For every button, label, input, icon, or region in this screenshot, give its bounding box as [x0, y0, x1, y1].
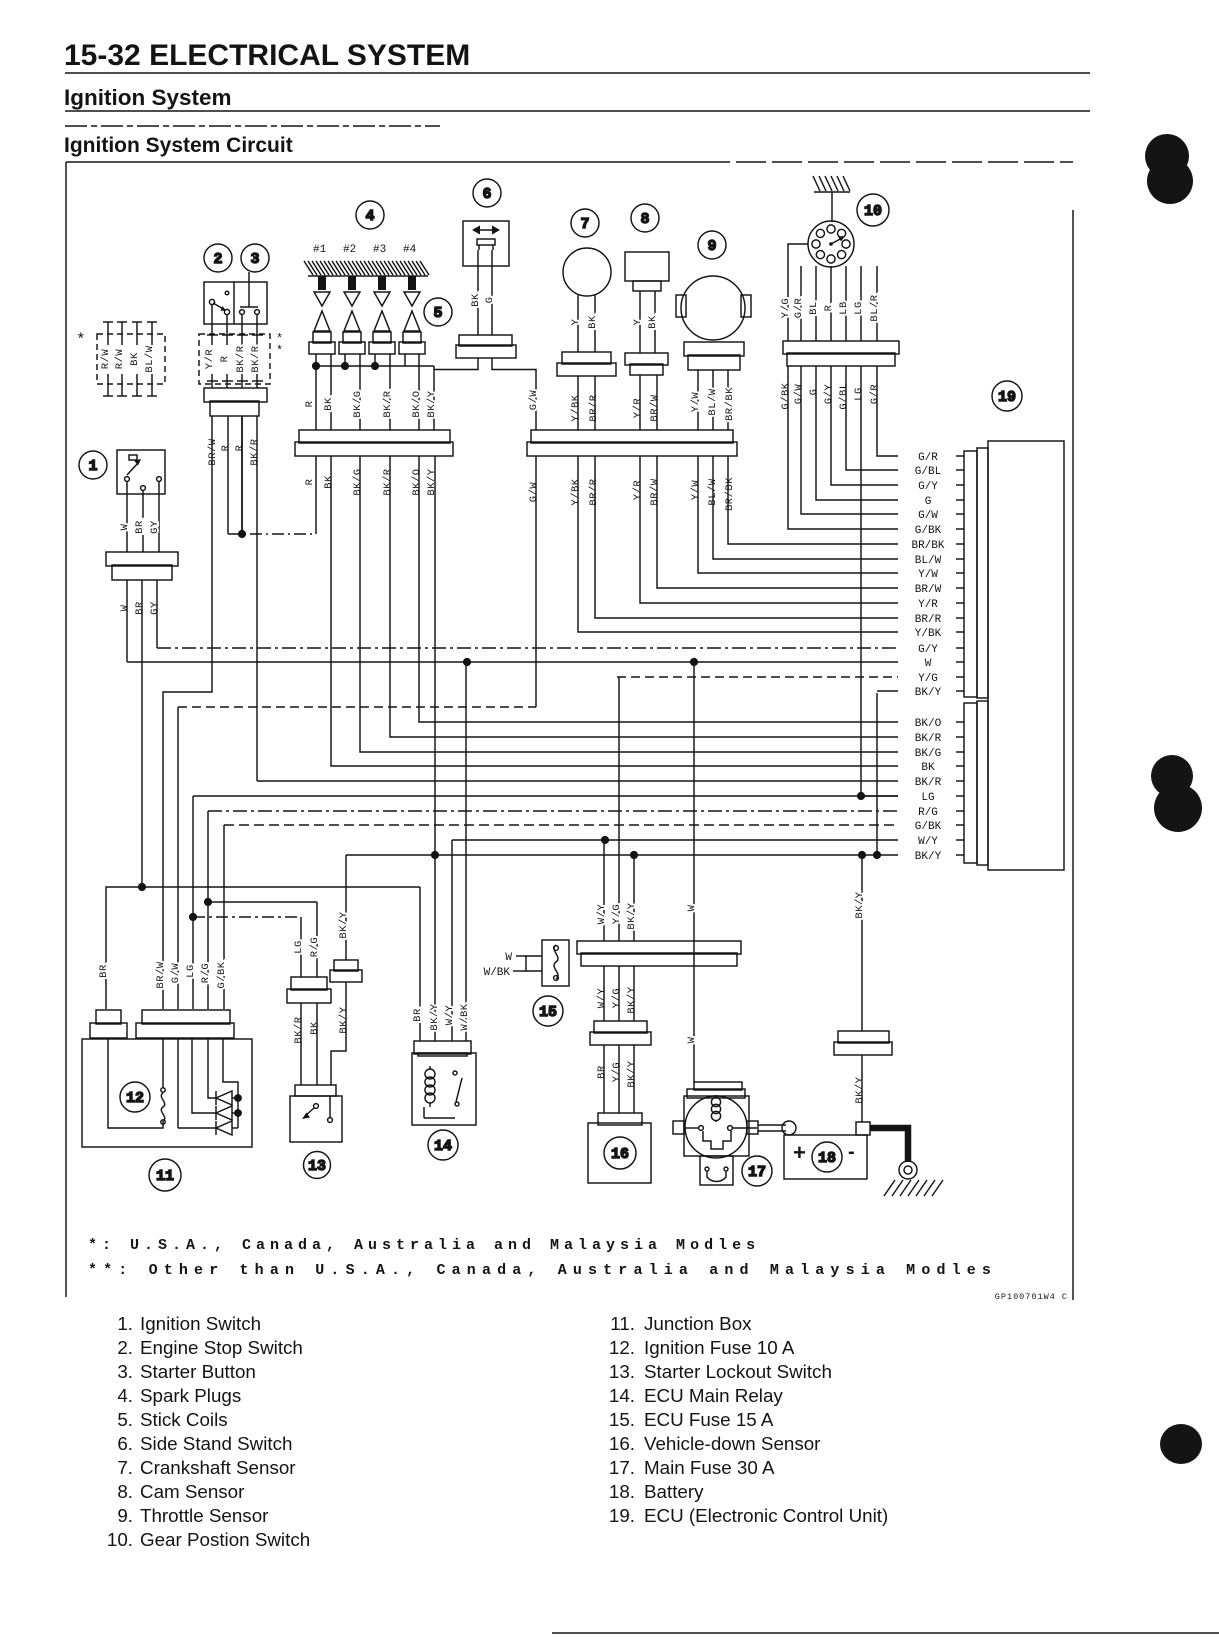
- svg-text:BR: BR: [134, 601, 146, 615]
- svg-text:R: R: [220, 444, 232, 451]
- svg-text:R/W: R/W: [100, 349, 112, 370]
- svg-text:BL: BL: [808, 301, 820, 315]
- throttle sensor base: [684, 342, 744, 370]
- section rule: [65, 110, 1090, 112]
- svg-text:Y/R: Y/R: [632, 480, 644, 501]
- svg-text:G/Y: G/Y: [918, 481, 938, 493]
- connector gear position switch: [783, 341, 899, 366]
- wire R/G dash-dot to ECU: [208, 810, 898, 812]
- svg-text:R/G: R/G: [309, 937, 321, 957]
- svg-text:BK/G: BK/G: [352, 468, 364, 495]
- svg-text:BK/Y: BK/Y: [338, 1006, 350, 1033]
- label circle 14: [428, 1130, 458, 1160]
- side stand switch body: [463, 221, 509, 266]
- svg-text:G/W: G/W: [528, 482, 540, 503]
- svg-text:G: G: [925, 496, 932, 508]
- label circle 15: [533, 996, 563, 1026]
- wire W/Y sensor16: [603, 840, 605, 941]
- svg-text:LG: LG: [853, 387, 865, 401]
- spark plug #2: [348, 276, 356, 290]
- connector battery ground lead: [834, 1031, 892, 1055]
- svg-text:Y/W: Y/W: [690, 392, 702, 413]
- svg-text:BL/R: BL/R: [869, 294, 881, 321]
- wire Y/G sensor16: [618, 677, 620, 941]
- wire G/BL to ECU: [846, 366, 898, 470]
- label circle 7: [571, 209, 599, 237]
- wire side stand BK to coil common: [434, 358, 478, 370]
- link bar fuse to battery: [758, 1124, 786, 1126]
- svg-text:G/BK: G/BK: [915, 821, 942, 833]
- svg-text:Y/BK: Y/BK: [915, 628, 942, 640]
- svg-text:17.: 17.: [609, 1457, 635, 1478]
- junction box diode circuit: [177, 1039, 179, 1128]
- svg-text:Cam Sensor: Cam Sensor: [140, 1481, 244, 1502]
- svg-text:BR/W: BR/W: [207, 438, 219, 465]
- diagram frame left border: [65, 162, 67, 1297]
- stick coil #4: [404, 311, 420, 331]
- svg-text:-: -: [848, 1141, 855, 1163]
- svg-text:12: 12: [126, 1090, 144, 1107]
- svg-text:BK/Y: BK/Y: [626, 986, 638, 1013]
- connector ECU main relay: [414, 1041, 471, 1056]
- connector stick coil #3: [369, 332, 395, 354]
- svg-text:LB: LB: [838, 301, 850, 315]
- svg-text:11.: 11.: [610, 1313, 635, 1334]
- binder hole middle: [1151, 755, 1193, 797]
- svg-text:W: W: [925, 658, 932, 670]
- svg-text:5: 5: [433, 305, 442, 322]
- wire W/BK relay: [465, 662, 467, 1041]
- svg-text:Spark Plugs: Spark Plugs: [140, 1385, 241, 1406]
- svg-text:18: 18: [818, 1150, 836, 1167]
- svg-text:9: 9: [707, 238, 716, 255]
- ECU main relay 14 body: [412, 1053, 476, 1125]
- connector side stand switch: [456, 335, 516, 358]
- wire R thick from switch: [241, 416, 243, 534]
- connector junction box main: [136, 1010, 234, 1038]
- svg-text:BK/Y: BK/Y: [915, 687, 942, 699]
- svg-text:G/W: G/W: [918, 510, 938, 522]
- svg-text:Throttle Sensor: Throttle Sensor: [140, 1505, 268, 1526]
- label circle 10: [857, 194, 889, 226]
- wires side stand to connector: [477, 250, 479, 335]
- cylinder head hatched bar: [304, 261, 429, 276]
- svg-text:10.: 10.: [107, 1529, 133, 1550]
- svg-text:Y/W: Y/W: [690, 480, 702, 501]
- svg-text:11: 11: [156, 1168, 174, 1185]
- svg-text:G: G: [808, 389, 820, 396]
- svg-text:BK/Y: BK/Y: [854, 891, 866, 918]
- svg-text:BK/R: BK/R: [235, 345, 247, 372]
- wire W main: [693, 662, 695, 1082]
- svg-text:BL/W: BL/W: [915, 555, 942, 567]
- svg-text:BK/G: BK/G: [915, 748, 941, 760]
- svg-text:BK/R: BK/R: [249, 438, 261, 465]
- engine stop switch 2 / starter button 3 body: [204, 272, 267, 324]
- svg-text:BR: BR: [134, 520, 146, 534]
- svg-text:G/R: G/R: [869, 384, 881, 405]
- svg-text:Y/G: Y/G: [611, 904, 623, 924]
- svg-text:GP100701W4 C: GP100701W4 C: [995, 1292, 1068, 1302]
- wire W long: [127, 661, 898, 663]
- wire BK/Y upper stub: [877, 690, 898, 692]
- svg-text:G/W: G/W: [793, 384, 805, 405]
- svg-text:8: 8: [640, 211, 649, 228]
- svg-text:15: 15: [539, 1004, 557, 1021]
- svg-text:BK/Y: BK/Y: [915, 851, 942, 863]
- connector sensor harness bus: [527, 430, 737, 456]
- throttle sensor body: [681, 276, 745, 340]
- svg-text:R/G: R/G: [918, 807, 938, 819]
- wire R thin from switch: [227, 416, 229, 534]
- svg-text:Junction Box: Junction Box: [644, 1313, 752, 1334]
- wire R/G comp13: [316, 902, 318, 977]
- svg-text:16.: 16.: [609, 1433, 635, 1454]
- svg-text:BK/Y: BK/Y: [429, 1003, 441, 1030]
- label circle 3: [241, 244, 269, 272]
- label circle 2: [204, 244, 232, 272]
- wire BK/G to ECU: [360, 456, 898, 752]
- wire LG comp13 branch dash-dot: [193, 916, 301, 918]
- svg-text:2.: 2.: [117, 1337, 133, 1358]
- svg-text:R: R: [304, 400, 316, 407]
- wire BK/R to ECU: [390, 456, 898, 737]
- svg-text:G/Y: G/Y: [918, 644, 938, 656]
- svg-text:BR/W: BR/W: [649, 394, 661, 421]
- svg-text:4: 4: [365, 208, 374, 225]
- svg-text:R: R: [219, 355, 231, 362]
- wire G/Y dash-dot long: [157, 647, 898, 649]
- svg-text:Ignition System: Ignition System: [64, 85, 232, 110]
- wire LG long to ECU: [861, 366, 898, 796]
- diagram frame right border: [1072, 210, 1074, 1300]
- stick coil #2: [344, 311, 360, 331]
- wire G/W below bus: [535, 456, 537, 707]
- wire G/BK junction box vertical: [223, 825, 225, 1009]
- svg-text:G/BK: G/BK: [915, 525, 942, 537]
- label circle 13: [304, 1152, 331, 1179]
- svg-text:15.: 15.: [609, 1409, 635, 1430]
- binder hole top: [1145, 134, 1189, 178]
- connector junction box small: [90, 1010, 127, 1038]
- connector cam sensor: [625, 353, 668, 375]
- svg-text:G/BL: G/BL: [915, 466, 941, 478]
- connector stick coil #2: [339, 332, 365, 354]
- ECU fuse 15 symbol: [513, 940, 569, 986]
- wire BK/Y link upper to lower: [876, 693, 878, 855]
- wires 2/3 into dashed box: [211, 304, 213, 345]
- svg-text:BK/R: BK/R: [250, 345, 262, 372]
- wire BK/Y lower to ECU: [346, 854, 898, 856]
- svg-text:BK/Y: BK/Y: [626, 1060, 638, 1087]
- svg-text:Y/G: Y/G: [611, 1062, 623, 1082]
- wire BR/W from switch 2: [163, 416, 212, 1009]
- svg-text:BK: BK: [309, 1021, 321, 1035]
- svg-text:Ignition System Circuit: Ignition System Circuit: [64, 134, 293, 157]
- svg-text:Y/R: Y/R: [918, 599, 938, 611]
- svg-text:R/W: R/W: [114, 349, 126, 370]
- binder hole bottom: [1160, 1424, 1202, 1464]
- connector starter lockout C: [330, 960, 362, 982]
- connector vehicle-down sensor: [590, 1021, 651, 1045]
- connector stick coil #4: [399, 332, 425, 354]
- svg-text:BK: BK: [323, 475, 335, 489]
- wire Y/BK to bus: [577, 376, 579, 430]
- connector coil harness bus: [295, 430, 453, 456]
- wire LG long to ECU: [193, 795, 898, 797]
- crankshaft sensor body: [563, 248, 611, 296]
- svg-text:BR/W: BR/W: [155, 961, 167, 988]
- svg-text:+: +: [793, 1140, 806, 1165]
- svg-text:#4: #4: [403, 244, 417, 256]
- svg-text:W/BK: W/BK: [484, 967, 511, 979]
- spark plug #1: [318, 276, 326, 290]
- cam sensor body: [625, 252, 669, 281]
- svg-text:14.: 14.: [609, 1385, 635, 1406]
- svg-text:LG: LG: [185, 964, 197, 978]
- svg-text:15-32 ELECTRICAL SYSTEM: 15-32 ELECTRICAL SYSTEM: [64, 39, 470, 72]
- svg-text:Y/W: Y/W: [918, 569, 938, 581]
- wire BK/Y comp13: [345, 855, 347, 960]
- svg-text:W/Y: W/Y: [918, 836, 938, 848]
- diode: [216, 1121, 232, 1135]
- svg-text:BK: BK: [587, 315, 599, 329]
- svg-text:*: U.S.A., Canada, Australia a: *: U.S.A., Canada, Australia and Malaysi…: [88, 1237, 760, 1254]
- wire R/G junction box vertical: [207, 811, 209, 1009]
- svg-text:Gear Postion Switch: Gear Postion Switch: [140, 1529, 310, 1550]
- wire Y/G dashed: [617, 676, 898, 678]
- svg-text:BK/Y: BK/Y: [426, 390, 438, 417]
- label circle 16: [604, 1137, 636, 1169]
- coil output wires to connector: [315, 366, 317, 430]
- svg-text:9.: 9.: [117, 1505, 133, 1526]
- label circle 5: [424, 298, 452, 326]
- junction dot R: [238, 530, 246, 538]
- wire W/Y to ECU: [452, 839, 898, 841]
- connector ignition switch: [106, 552, 178, 580]
- connector stick coil #1: [309, 332, 335, 354]
- wire BL/W to ECU: [713, 456, 898, 559]
- svg-text:*: *: [76, 331, 86, 349]
- svg-text:8.: 8.: [117, 1481, 133, 1502]
- svg-text:Stick Coils: Stick Coils: [140, 1409, 228, 1430]
- wire G/R to ECU: [877, 366, 898, 456]
- svg-text:**: Other than U.S.A., Canada,: **: Other than U.S.A., Canada, Australia…: [88, 1262, 997, 1279]
- svg-text:G: G: [484, 297, 496, 304]
- connector crankshaft sensor: [557, 352, 616, 376]
- svg-text:BK/O: BK/O: [411, 468, 423, 495]
- svg-text:Starter Button: Starter Button: [140, 1361, 256, 1382]
- svg-text:BK/O: BK/O: [411, 390, 423, 417]
- label circle 1: [79, 451, 107, 479]
- svg-text:*: *: [276, 344, 283, 358]
- svg-text:W/Y: W/Y: [444, 1005, 456, 1026]
- wire G/W junction box vertical: [177, 707, 179, 1009]
- wire LG junction box vertical: [192, 796, 194, 1009]
- svg-text:ECU Fuse 15 A: ECU Fuse 15 A: [644, 1409, 774, 1430]
- svg-text:BK/R: BK/R: [915, 777, 942, 789]
- battery 18 body: [784, 1135, 867, 1179]
- svg-text:1: 1: [88, 458, 97, 475]
- svg-text:G/BK: G/BK: [780, 382, 792, 409]
- svg-text:BR/BK: BR/BK: [911, 540, 944, 552]
- wire BK/Y battery: [861, 855, 863, 1031]
- svg-text:6: 6: [482, 186, 491, 203]
- svg-text:BR: BR: [98, 964, 110, 978]
- wire BK/O to ECU: [419, 456, 898, 722]
- svg-text:ECU (Electronic Control Unit): ECU (Electronic Control Unit): [644, 1505, 888, 1526]
- svg-text:Engine Stop Switch: Engine Stop Switch: [140, 1337, 303, 1358]
- svg-text:BK: BK: [921, 762, 935, 774]
- diode: [216, 1106, 232, 1120]
- svg-text:BK/R: BK/R: [915, 733, 942, 745]
- wire W from ignition switch: [126, 580, 128, 662]
- svg-text:Y: Y: [570, 318, 582, 325]
- wire BR junction box feed: [106, 887, 420, 1009]
- vehicle-down sensor 16 body: [598, 1113, 642, 1125]
- svg-text:BR: BR: [412, 1008, 424, 1022]
- svg-text:BK/G: BK/G: [352, 390, 364, 417]
- svg-text:3: 3: [250, 251, 259, 268]
- wire BK to ECU: [331, 456, 898, 766]
- battery negative terminal: [856, 1122, 870, 1135]
- spark plug #3: [378, 276, 386, 290]
- svg-text:G/BK: G/BK: [216, 961, 228, 988]
- svg-text:18.: 18.: [609, 1481, 635, 1502]
- svg-text:BK: BK: [129, 352, 141, 366]
- ignition switch 1 body: [117, 450, 165, 494]
- spark plug #4: [408, 276, 416, 290]
- inline connector wire BL/W: [151, 322, 153, 345]
- svg-text:Battery: Battery: [644, 1481, 704, 1502]
- wire G/W side stand to junction box dashed: [178, 706, 536, 708]
- svg-text:W/BK: W/BK: [459, 1003, 471, 1030]
- wire side stand G to G/W: [492, 358, 536, 430]
- svg-text:Y: Y: [632, 318, 644, 325]
- wire BK/R starter lockout to ECU: [257, 780, 898, 782]
- svg-text:19.: 19.: [609, 1505, 635, 1526]
- svg-text:BK/R: BK/R: [382, 390, 394, 417]
- wire BR/R to bus: [594, 376, 596, 430]
- wire G/BK dashed to ECU: [224, 824, 898, 826]
- svg-text:Side Stand Switch: Side Stand Switch: [140, 1433, 292, 1454]
- wire Y/W to ECU: [698, 456, 898, 573]
- svg-text:10: 10: [864, 203, 882, 220]
- svg-text:BR/W: BR/W: [915, 584, 942, 596]
- svg-text:14: 14: [434, 1138, 452, 1155]
- ground bolt: [899, 1161, 917, 1179]
- svg-text:G/R: G/R: [793, 298, 805, 319]
- svg-text:Y/G: Y/G: [780, 298, 792, 318]
- svg-text:Ignition Fuse 10 A: Ignition Fuse 10 A: [644, 1337, 795, 1358]
- main fuse lower housing: [700, 1156, 733, 1185]
- svg-text:W: W: [119, 604, 131, 611]
- wire R dash-dot to coils: [228, 533, 316, 535]
- gear position switch rotor: [808, 221, 854, 267]
- label circle 9: [698, 231, 726, 259]
- wires crank sensor: [577, 295, 579, 352]
- ignition fuse 12 circuit: [108, 1039, 163, 1128]
- svg-text:BR/W: BR/W: [649, 478, 661, 505]
- wires gear switch to connector: [788, 244, 808, 341]
- wire BK/Y coil to relay: [434, 456, 436, 1041]
- svg-text:R: R: [234, 444, 246, 451]
- svg-text:#2: #2: [343, 244, 356, 256]
- svg-text:BK/R: BK/R: [293, 1016, 305, 1043]
- svg-text:BR/R: BR/R: [588, 394, 600, 421]
- svg-text:13: 13: [308, 1158, 326, 1175]
- inline connector wire R/W: [107, 322, 109, 345]
- wire G/W to ECU: [801, 366, 898, 514]
- connector frame harness bus: [577, 941, 741, 966]
- wires throttle sensor: [697, 370, 699, 430]
- label circle 6: [473, 179, 501, 207]
- svg-text:GY: GY: [149, 601, 161, 615]
- label circle 19: [992, 381, 1022, 411]
- svg-text:BR/R: BR/R: [588, 478, 600, 505]
- wire BR relay feed: [419, 887, 421, 1041]
- svg-text:W/Y: W/Y: [596, 904, 608, 925]
- svg-text:16: 16: [611, 1146, 629, 1163]
- wires switch 1 to connector: [126, 481, 128, 552]
- svg-text:GY: GY: [149, 520, 161, 534]
- ground symbol gear position switch: [813, 176, 850, 191]
- wire LG comp13: [300, 917, 302, 977]
- junction box 11 body: [82, 1039, 252, 1147]
- svg-text:BK: BK: [323, 397, 335, 411]
- svg-text:BK/O: BK/O: [915, 718, 942, 730]
- svg-text:BR/R: BR/R: [915, 614, 942, 626]
- svg-text:W/Y: W/Y: [596, 988, 608, 1009]
- svg-text:R: R: [823, 304, 835, 311]
- svg-text:LG: LG: [293, 940, 305, 954]
- svg-text:Y/R: Y/R: [632, 398, 644, 419]
- wire BK/R from starter button: [256, 416, 258, 781]
- svg-text:Ignition Switch: Ignition Switch: [140, 1313, 261, 1334]
- svg-text:BR/BK: BR/BK: [724, 477, 736, 511]
- thick ground cable: [870, 1128, 908, 1162]
- inline connector wire R/W: [121, 322, 123, 345]
- diode: [216, 1091, 232, 1105]
- svg-text:6.: 6.: [117, 1433, 133, 1454]
- svg-text:1.: 1.: [117, 1313, 133, 1334]
- starter lockout switch 13 body: [290, 1085, 342, 1142]
- wire BR/BK to ECU: [728, 456, 898, 544]
- svg-text:R/G: R/G: [200, 963, 212, 983]
- svg-text:Starter Lockout Switch: Starter Lockout Switch: [644, 1361, 832, 1382]
- svg-text:BK/Y: BK/Y: [338, 911, 350, 938]
- svg-text:2: 2: [213, 251, 222, 268]
- coil common wire: [316, 365, 434, 367]
- svg-text:19: 19: [998, 389, 1016, 406]
- svg-text:#3: #3: [373, 244, 386, 256]
- connector switches 2/3: [204, 388, 267, 416]
- svg-text:G/R: G/R: [918, 452, 938, 464]
- svg-text:Y/BK: Y/BK: [570, 478, 582, 505]
- wire Y/R to ECU: [640, 456, 898, 603]
- header rule: [65, 72, 1090, 74]
- svg-text:ECU Main Relay: ECU Main Relay: [644, 1385, 783, 1406]
- svg-text:BK/Y: BK/Y: [626, 902, 638, 929]
- bottom page rule: [552, 1632, 1219, 1634]
- svg-text:BK/Y: BK/Y: [854, 1076, 866, 1103]
- svg-text:4.: 4.: [117, 1385, 133, 1406]
- svg-text:BK: BK: [647, 315, 659, 329]
- wire BK/Y sensor16: [633, 855, 635, 941]
- wire R below bus: [315, 456, 317, 534]
- wire GY from ignition switch: [156, 580, 158, 648]
- wire G/Y to ECU: [831, 366, 898, 485]
